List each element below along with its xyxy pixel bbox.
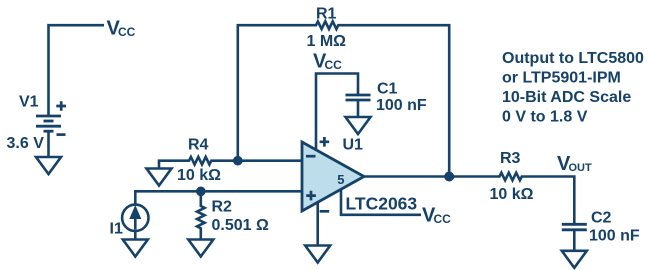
ground xyxy=(346,117,371,134)
svg-text:CC: CC xyxy=(434,212,452,226)
I1 arrow xyxy=(134,216,137,230)
capacitor C1 xyxy=(346,95,371,100)
svg-text:OUT: OUT xyxy=(569,162,593,174)
op-amp noninverting input plus xyxy=(306,191,316,201)
svg-text:10 kΩ: 10 kΩ xyxy=(177,167,221,184)
svg-text:0.501 Ω: 0.501 Ω xyxy=(212,217,269,234)
wire output with resistor R3 zigzag xyxy=(364,173,574,225)
svg-text:LTC2063: LTC2063 xyxy=(346,194,418,214)
junction dot output node xyxy=(444,172,454,182)
plus/minus signs xyxy=(56,101,329,211)
wire R4 branch xyxy=(159,157,302,169)
battery plus xyxy=(56,101,66,111)
battery V1 xyxy=(36,116,61,131)
svg-text:V1: V1 xyxy=(19,94,39,111)
op-amp inverting input minus xyxy=(306,155,316,158)
svg-text:CC: CC xyxy=(118,25,136,39)
wire R1 feedback loop xyxy=(238,21,449,176)
ground xyxy=(123,240,148,257)
svg-text:1 MΩ: 1 MΩ xyxy=(307,33,347,50)
svg-text:100 nF: 100 nF xyxy=(376,97,427,114)
wire I1 to ground xyxy=(134,231,137,240)
wire pin 5 to Vcc xyxy=(341,189,421,215)
ground xyxy=(147,169,172,186)
junction dot node A xyxy=(233,156,243,166)
svg-text:CC: CC xyxy=(325,58,343,72)
svg-text:100 nF: 100 nF xyxy=(589,228,640,245)
svg-text:3.6 V: 3.6 V xyxy=(7,135,45,152)
svg-text:R2: R2 xyxy=(212,199,233,216)
svg-text:R3: R3 xyxy=(500,150,521,167)
wire noninverting input xyxy=(135,191,302,205)
wire C2 to ground xyxy=(573,230,576,251)
capacitor C2 xyxy=(562,224,587,230)
wire battery to ground xyxy=(47,131,50,157)
ground xyxy=(36,157,61,174)
svg-text:C1: C1 xyxy=(377,81,398,98)
svg-text:5: 5 xyxy=(337,172,344,187)
op-amp supply minus xyxy=(320,210,330,213)
ground xyxy=(305,246,330,263)
op-amp U1 triangle xyxy=(302,142,364,211)
svg-text:U1: U1 xyxy=(343,137,364,154)
svg-text:R4: R4 xyxy=(188,137,209,154)
svg-text:I1: I1 xyxy=(110,221,123,238)
ground xyxy=(562,251,587,268)
ground xyxy=(188,240,213,257)
svg-text:10-Bit ADC Scale: 10-Bit ADC Scale xyxy=(502,89,631,106)
battery minus xyxy=(57,133,66,136)
wire C1 to ground xyxy=(357,100,360,117)
junction dot node B xyxy=(196,187,206,197)
svg-text:or LTP5901-IPM: or LTP5901-IPM xyxy=(502,70,621,87)
op-amp ground stub xyxy=(316,202,319,246)
resistor R2 xyxy=(197,191,205,239)
svg-text:C2: C2 xyxy=(591,210,612,227)
wire Vcc to op-amp and C1 xyxy=(316,74,358,150)
current source I1 xyxy=(122,205,148,231)
svg-text:10 kΩ: 10 kΩ xyxy=(490,186,534,203)
op-amp supply plus xyxy=(320,137,330,147)
wire Vcc top-left xyxy=(49,25,105,116)
svg-text:R1: R1 xyxy=(316,6,337,23)
svg-text:Output to LTC5800: Output to LTC5800 xyxy=(502,50,644,67)
svg-text:0 V to 1.8 V: 0 V to 1.8 V xyxy=(502,109,588,126)
